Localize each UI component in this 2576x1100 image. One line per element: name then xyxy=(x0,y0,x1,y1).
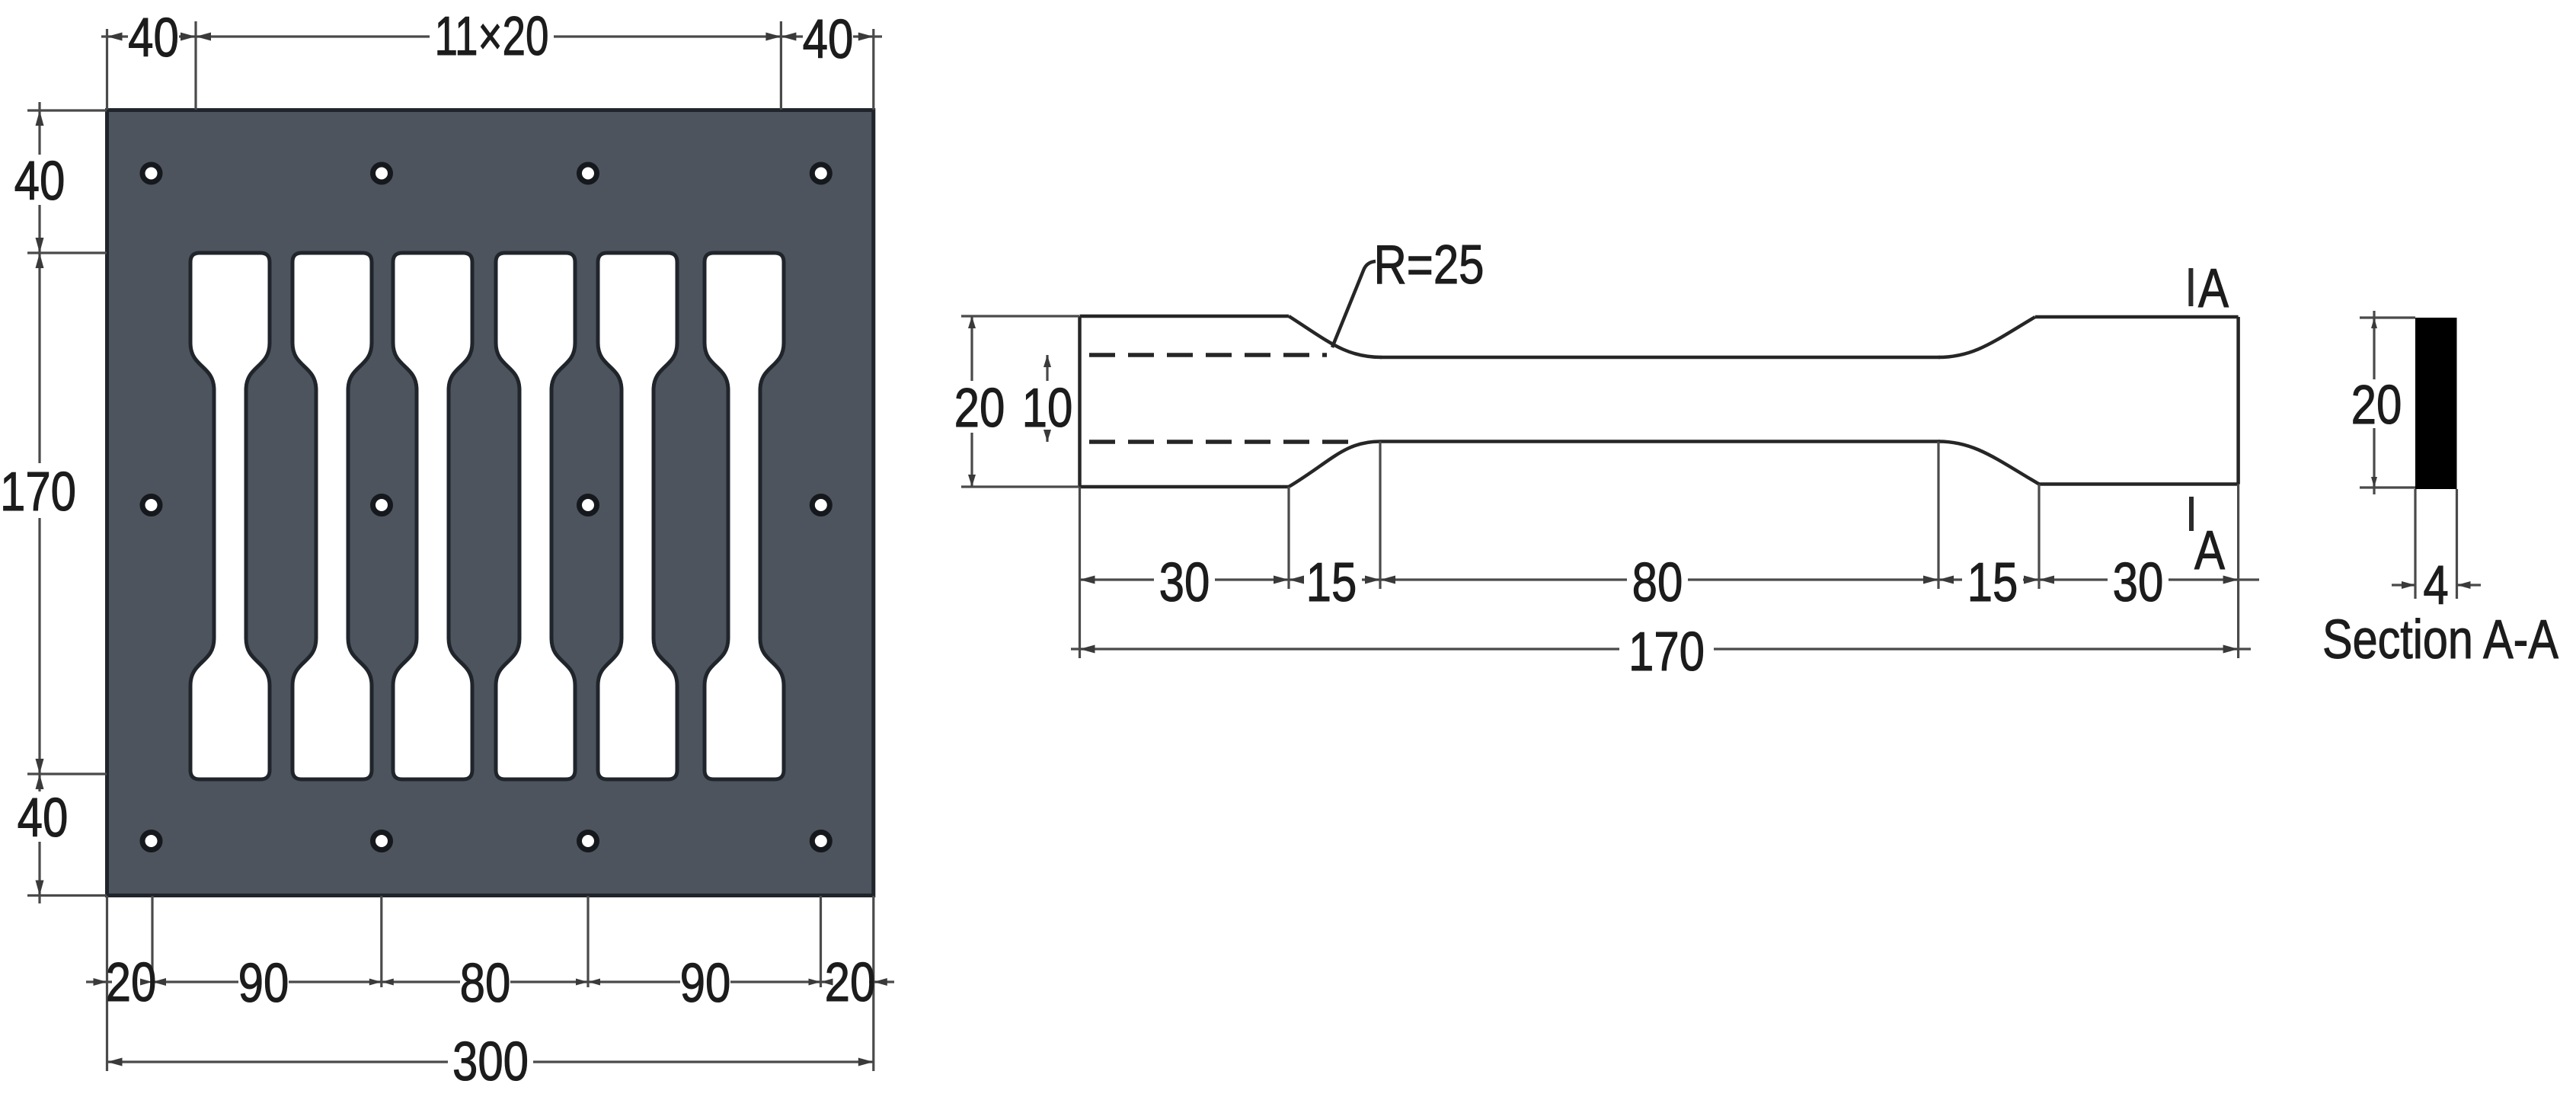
specimen cutout 5 xyxy=(598,253,677,779)
svg-text:20: 20 xyxy=(106,952,157,1013)
neck bottom line xyxy=(1380,440,1940,443)
section solid black bar xyxy=(2415,318,2457,489)
dimension arrowheads: left view xyxy=(36,33,887,1066)
svg-text:20: 20 xyxy=(954,378,1005,439)
top edge right grip xyxy=(2035,315,2239,319)
svg-text:80: 80 xyxy=(1632,552,1683,613)
dim row 170 at y=852 xyxy=(1071,648,1619,650)
bottom extension lines xyxy=(106,896,108,1071)
20 dim extension lines (left) xyxy=(961,315,1079,317)
R=25 leader line xyxy=(1332,261,1376,347)
bottom dim row 2 segments (300) xyxy=(107,1060,449,1063)
svg-text:40: 40 xyxy=(18,788,69,849)
bottom-left taper fillet xyxy=(1289,442,1380,488)
svg-text:40: 40 xyxy=(803,9,854,70)
svg-text:A: A xyxy=(2198,258,2229,319)
top dim line segments xyxy=(101,35,128,37)
svg-text:20: 20 xyxy=(2351,375,2402,436)
svg-text:R=25: R=25 xyxy=(1373,235,1484,296)
svg-text:90: 90 xyxy=(680,953,731,1014)
svg-text:11×20: 11×20 xyxy=(435,6,549,67)
specimen cutout 4 xyxy=(496,253,575,779)
svg-text:4: 4 xyxy=(2423,555,2448,616)
svg-text:Section A-A: Section A-A xyxy=(2322,609,2559,670)
svg-text:30: 30 xyxy=(1159,552,1210,613)
bolt holes (12) xyxy=(142,165,829,850)
svg-text:170: 170 xyxy=(0,462,76,523)
dim row 30 15 80 15 30 at y=761 xyxy=(1080,578,1155,580)
right view dim arrows xyxy=(968,316,2239,654)
svg-text:15: 15 xyxy=(1967,552,2018,613)
20 dim line xyxy=(970,316,973,381)
svg-text:A: A xyxy=(2194,520,2226,581)
svg-text:300: 300 xyxy=(452,1031,529,1092)
right end vertical xyxy=(2236,317,2240,484)
svg-text:40: 40 xyxy=(14,151,66,212)
right view labels xyxy=(954,378,2164,683)
specimen cutout 1 xyxy=(190,253,270,779)
dimension lines and extension lines: left view xyxy=(27,21,894,1071)
specimen profile outline xyxy=(1080,316,2239,487)
extension lines below profile xyxy=(1079,487,1081,658)
left dim line segments xyxy=(38,102,40,155)
neck top line xyxy=(1380,356,1940,360)
plate (left view, dark gray) xyxy=(107,110,874,896)
svg-text:80: 80 xyxy=(460,953,511,1014)
section dim/extension lines xyxy=(2360,311,2481,599)
bottom edge right grip xyxy=(2039,482,2239,486)
dimension labels: left view xyxy=(0,6,875,1092)
left dim extension lines xyxy=(27,109,107,111)
bottom-right taper fillet xyxy=(1938,442,2039,484)
svg-text:40: 40 xyxy=(128,8,179,69)
svg-text:170: 170 xyxy=(1628,622,1705,683)
svg-text:30: 30 xyxy=(2113,552,2164,613)
top-left taper fillet xyxy=(1289,316,1382,357)
top edge left grip xyxy=(1080,315,1290,318)
specimen cutout 3 xyxy=(393,253,472,779)
section dim arrows xyxy=(2371,318,2471,589)
left end vertical xyxy=(1078,316,1082,487)
top-right taper fillet xyxy=(1938,317,2035,357)
svg-text:90: 90 xyxy=(238,953,289,1014)
10 dim line xyxy=(1046,355,1048,381)
svg-text:10: 10 xyxy=(1022,378,1073,439)
specimen cutout 6 xyxy=(705,253,784,779)
top dim extension lines xyxy=(106,29,108,110)
bottom dim row 1 segments (20 90 80 90 20) xyxy=(86,980,112,983)
hidden neck lines (dashed) xyxy=(1089,355,1353,442)
section cut mark A (bottom) xyxy=(2189,497,2194,531)
bottom edge left grip xyxy=(1080,485,1290,489)
right view dimension and extension lines xyxy=(961,316,2259,658)
section cut mark A (top) xyxy=(2188,268,2193,306)
specimen cutout 2 xyxy=(292,253,372,779)
svg-text:15: 15 xyxy=(1306,552,1357,613)
svg-text:20: 20 xyxy=(825,952,876,1013)
